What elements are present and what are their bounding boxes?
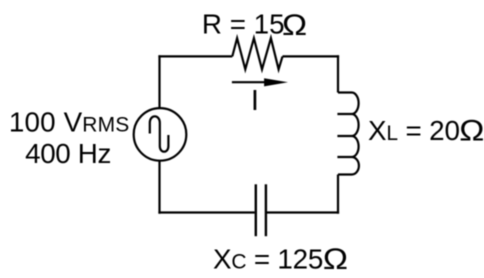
current arrow — [232, 78, 288, 86]
wire right upper — [337, 55, 339, 92]
resistor value label R = 15Ω — [202, 8, 307, 42]
svg-text:400 Hz: 400 Hz — [25, 138, 111, 169]
capacitor XC — [256, 184, 266, 236]
svg-text:100 VRMS: 100 VRMS — [9, 107, 130, 138]
svg-text:Ω: Ω — [282, 8, 307, 42]
capacitor value label XC = 125Ω — [213, 242, 348, 276]
inductor XL — [337, 93, 359, 175]
source label 100 VRMS 400 Hz — [9, 107, 130, 169]
svg-text:R = 15: R = 15 — [202, 8, 285, 39]
wire bottom-left — [158, 211, 254, 213]
wire top-left — [158, 55, 232, 57]
inductor value label XL = 20Ω — [368, 113, 484, 147]
svg-text:Ω: Ω — [459, 113, 484, 147]
resistor R — [232, 38, 282, 69]
svg-text:XL = 20: XL = 20 — [368, 115, 460, 146]
wire right lower — [337, 175, 339, 214]
wire left lower — [158, 161, 160, 214]
svg-text:Ω: Ω — [323, 242, 348, 276]
wire bottom-right — [267, 211, 339, 213]
wire left upper — [158, 55, 160, 108]
voltage source V1 — [134, 108, 187, 161]
svg-text:I: I — [251, 85, 259, 117]
svg-text:XC = 125: XC = 125 — [213, 244, 323, 275]
wire top-right — [283, 55, 340, 57]
